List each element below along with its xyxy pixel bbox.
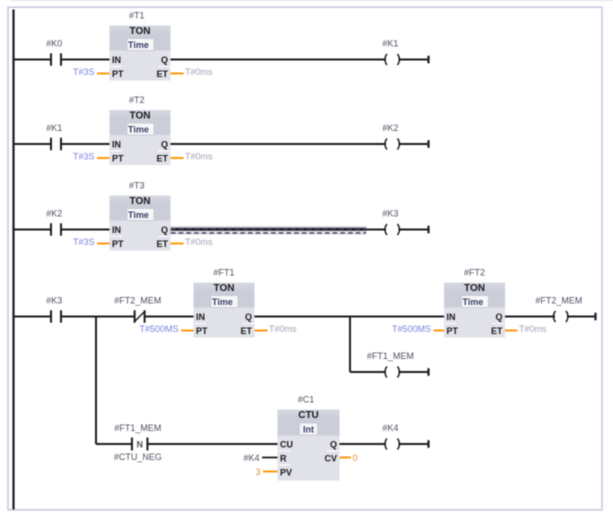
coil #FT2_MEM <box>535 296 582 323</box>
wire coil FT2_MEM to end <box>567 316 596 318</box>
wire node A to contact FT2_MEM <box>96 316 135 318</box>
svg-text:IN: IN <box>112 225 121 235</box>
svg-text:#FT2_MEM: #FT2_MEM <box>535 296 582 306</box>
wire rail to contact K3 <box>14 316 52 318</box>
svg-text:T#3S: T#3S <box>73 237 95 247</box>
svg-text:T#0ms: T#0ms <box>185 67 213 77</box>
top edge line <box>10 0 613 2</box>
wire #K4 to C1 R <box>262 457 278 459</box>
svg-text:Time: Time <box>128 40 149 50</box>
wire coil K2 to end <box>398 143 428 145</box>
wire C1 Q to coil K4 <box>340 443 387 445</box>
counter block #C1 CTU <box>278 395 340 481</box>
wire 3 to C1 PV <box>263 471 278 473</box>
wire FT1 ET out <box>255 330 268 332</box>
branch K4 end tick <box>427 440 429 448</box>
wire T1 ET out <box>171 73 184 75</box>
svg-text:IN: IN <box>196 312 205 322</box>
svg-text:Q: Q <box>330 439 337 449</box>
wire contact K1 to T2 IN <box>61 143 110 145</box>
svg-text:#K0: #K0 <box>46 39 62 49</box>
coil #K4 <box>382 423 399 450</box>
svg-text:#CTU_NEG: #CTU_NEG <box>114 452 162 462</box>
svg-text:Q: Q <box>245 312 252 322</box>
contact #K1 <box>46 123 62 150</box>
svg-text:CV: CV <box>324 453 337 463</box>
svg-text:#K4: #K4 <box>243 453 259 463</box>
wire T2 Q to coil K2 <box>171 143 387 145</box>
branch FT1_MEM end tick <box>427 368 429 376</box>
timer block #T3 TON <box>110 181 171 251</box>
svg-text:#K2: #K2 <box>46 209 62 219</box>
wire node B to coil FT1_MEM <box>350 371 386 373</box>
selected wire T3 Q to coil K3 <box>171 227 367 234</box>
power rail <box>12 10 14 510</box>
wire contact FT2_MEM to FT1 IN <box>145 316 194 318</box>
wire contact to C1 CU <box>147 443 277 445</box>
svg-text:ET: ET <box>156 69 168 79</box>
svg-text:TON: TON <box>130 110 151 121</box>
wire T2 ET out <box>171 157 184 159</box>
value T#500MS at FT1 PT <box>139 324 178 334</box>
node B branch vertical <box>349 317 351 373</box>
wire C1 CV out <box>340 457 352 459</box>
svg-text:T#3S: T#3S <box>73 152 95 162</box>
wire T#3S to T1 PT <box>97 73 110 75</box>
contact #K3 <box>46 296 62 323</box>
contact #K0 <box>46 39 62 66</box>
svg-text:PV: PV <box>280 467 292 477</box>
svg-text:#K3: #K3 <box>46 296 62 306</box>
wire T#3S to T2 PT <box>97 157 110 159</box>
svg-text:#FT1_MEM: #FT1_MEM <box>367 351 414 361</box>
svg-text:#T2: #T2 <box>129 95 145 105</box>
coil #K3 <box>382 209 399 236</box>
value 3 at C1 PV <box>255 467 260 477</box>
coil #K1 <box>382 39 399 66</box>
svg-text:#K4: #K4 <box>382 423 398 433</box>
svg-text:TON: TON <box>130 26 151 37</box>
svg-text:#K3: #K3 <box>382 209 398 219</box>
value T#3S at T3 PT <box>73 237 95 247</box>
timer block #T1 TON <box>110 11 171 81</box>
value T#0ms at FT2 ET <box>519 324 547 334</box>
svg-text:TON: TON <box>214 283 235 294</box>
svg-text:ET: ET <box>240 326 252 336</box>
svg-text:0: 0 <box>353 453 358 463</box>
svg-text:#FT1: #FT1 <box>213 268 234 278</box>
wire selection end to coil K3 <box>366 229 386 231</box>
wire node A to contact FT1_MEM <box>96 443 132 445</box>
svg-text:CTU: CTU <box>298 410 319 421</box>
svg-text:T#0ms: T#0ms <box>519 324 547 334</box>
svg-text:#K1: #K1 <box>382 39 398 49</box>
svg-text:Q: Q <box>161 139 168 149</box>
svg-text:T#500MS: T#500MS <box>139 324 178 334</box>
wire contact K0 to T1 IN <box>61 59 110 61</box>
svg-text:Time: Time <box>128 124 149 134</box>
timer block #FT2 TON <box>444 268 505 338</box>
svg-text:R: R <box>280 453 287 463</box>
wire rail to contact K0 <box>14 59 52 61</box>
wire contact K2 to T3 IN <box>61 229 110 231</box>
svg-text:ET: ET <box>156 239 168 249</box>
coil #FT1_MEM <box>367 351 414 378</box>
wire T#500MS to FT2 PT <box>434 330 445 332</box>
svg-text:Time: Time <box>463 297 484 307</box>
svg-text:CU: CU <box>280 439 293 449</box>
rung 3 end tick <box>427 226 429 234</box>
svg-text:N: N <box>136 439 143 449</box>
rung 1 end tick <box>427 56 429 64</box>
wire T#3S to T3 PT <box>97 243 110 245</box>
value T#3S at T1 PT <box>73 67 95 77</box>
svg-text:TON: TON <box>464 283 485 294</box>
svg-text:Q: Q <box>495 312 502 322</box>
svg-text:ET: ET <box>491 326 503 336</box>
svg-text:PT: PT <box>447 326 459 336</box>
svg-text:T#500MS: T#500MS <box>392 324 431 334</box>
svg-text:PT: PT <box>112 239 124 249</box>
timer block #FT1 TON <box>194 268 255 338</box>
wire contact K3 to node A <box>61 316 97 318</box>
svg-text:T#0ms: T#0ms <box>269 324 297 334</box>
value T#0ms at FT1 ET <box>269 324 297 334</box>
svg-text:#T1: #T1 <box>129 11 145 21</box>
value T#0ms at T1 ET <box>185 67 213 77</box>
wire FT2 Q to coil FT2_MEM <box>505 316 555 318</box>
wire rail to contact K2 <box>14 229 52 231</box>
coil #K2 <box>382 123 399 150</box>
svg-text:Time: Time <box>128 210 149 220</box>
svg-text:#K2: #K2 <box>382 123 398 133</box>
value T#0ms at T3 ET <box>185 237 213 247</box>
contact #K2 <box>46 209 62 236</box>
wire T1 Q to coil K1 <box>171 59 387 61</box>
svg-text:3: 3 <box>255 467 260 477</box>
svg-text:#FT1_MEM: #FT1_MEM <box>114 423 161 433</box>
node A branch vertical <box>95 317 97 445</box>
wire coil FT1_MEM to end <box>398 371 428 373</box>
svg-text:#T3: #T3 <box>129 181 145 191</box>
svg-text:Time: Time <box>212 297 233 307</box>
value 0 at C1 CV <box>353 453 358 463</box>
svg-text:ET: ET <box>156 153 168 163</box>
wire coil K1 to end <box>398 59 428 61</box>
svg-text:#C1: #C1 <box>298 395 315 405</box>
operand #K4 at C1 R <box>243 453 259 463</box>
value T#500MS at FT2 PT <box>392 324 431 334</box>
wire T3 ET out <box>171 243 184 245</box>
contact #FT1_MEM negative edge <box>114 423 162 462</box>
svg-text:Int: Int <box>303 424 314 434</box>
wire rail to contact K1 <box>14 143 52 145</box>
timer block #T2 TON <box>110 95 171 165</box>
svg-text:TON: TON <box>130 196 151 207</box>
svg-text:IN: IN <box>112 55 121 65</box>
svg-text:Q: Q <box>161 55 168 65</box>
svg-text:PT: PT <box>196 326 208 336</box>
svg-text:#FT2: #FT2 <box>464 268 485 278</box>
wire FT1 Q to node B and FT2 IN <box>255 316 445 318</box>
rung 4 end tick <box>594 313 596 321</box>
value T#3S at T2 PT <box>73 152 95 162</box>
wire FT2 ET out <box>505 330 518 332</box>
svg-text:PT: PT <box>112 153 124 163</box>
svg-text:IN: IN <box>447 312 456 322</box>
value T#0ms at T2 ET <box>185 152 213 162</box>
svg-text:T#0ms: T#0ms <box>185 152 213 162</box>
wire T#500MS to FT1 PT <box>181 330 194 332</box>
svg-text:#K1: #K1 <box>46 123 62 133</box>
svg-text:PT: PT <box>112 69 124 79</box>
svg-text:T#3S: T#3S <box>73 67 95 77</box>
svg-text:#FT2_MEM: #FT2_MEM <box>114 296 161 306</box>
svg-text:Q: Q <box>161 225 168 235</box>
svg-text:IN: IN <box>112 139 121 149</box>
contact #FT2_MEM NC <box>114 296 161 323</box>
rung 2 end tick <box>427 140 429 148</box>
svg-text:T#0ms: T#0ms <box>185 237 213 247</box>
wire coil K4 to end <box>398 443 428 445</box>
wire coil K3 to end <box>398 229 428 231</box>
